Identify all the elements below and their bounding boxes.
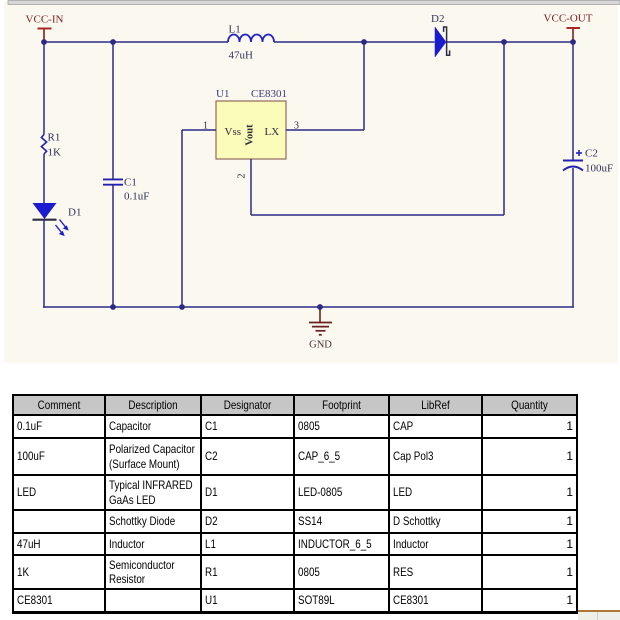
resistor R1 [41,132,61,159]
junction node GND tap [317,304,323,310]
junction node C1 top [110,39,116,45]
svg-text:D2: D2 [431,13,444,25]
svg-text:GND: GND [309,340,332,351]
wire riser to top rail [363,42,365,130]
wire R1 to D1 [43,154,45,203]
junction node LX riser top [361,39,367,45]
svg-text:100uF: 100uF [585,163,613,175]
op IC U1 body [216,88,287,159]
bottom right orange strip [578,610,620,612]
capacitor C2 polarized [563,148,613,175]
power symbol VCC-OUT [544,13,593,43]
wire top rail mid (L1 to D2) [274,41,435,43]
wire pin2 horizontal [251,214,504,216]
svg-text:Vout: Vout [245,124,256,146]
svg-text:L1: L1 [229,24,241,36]
wire LX to riser [286,129,364,131]
svg-text:CE8301: CE8301 [251,88,287,100]
junction node feedback top [501,39,507,45]
wire top rail right (D2 to VCC-OUT) [447,41,573,43]
svg-text:1K: 1K [48,147,62,159]
wire D1 to bottom rail [43,220,45,308]
BOM table [12,394,578,614]
svg-text:C1: C1 [124,177,137,189]
wire C2 to bottom rail [572,168,574,308]
svg-text:2: 2 [237,174,248,179]
wire feedback riser [503,42,505,215]
wire pin2 down [250,159,252,215]
capacitor C1 [103,177,149,203]
schematic cream background [4,1,618,363]
svg-text:C2: C2 [585,148,598,160]
svg-text:R1: R1 [48,132,61,144]
wire C1 branch top [112,42,114,179]
svg-text:0.1uF: 0.1uF [124,191,149,203]
svg-text:U1: U1 [216,88,229,100]
diode D2 (schottky) [431,13,450,57]
svg-text:LX: LX [265,126,280,138]
inductor L1 [228,24,274,62]
svg-text:VCC-OUT: VCC-OUT [544,13,593,25]
wire top rail left (VCC-IN to L1) [44,41,228,43]
svg-text:VCC-IN: VCC-IN [26,14,64,26]
top gray strip [8,1,620,5]
wire bottom rail [43,306,574,308]
LED D1 [33,203,82,236]
ground symbol GND [309,307,332,351]
wire pin1 vertical to bottom rail [181,130,183,307]
svg-text:Vss: Vss [225,126,242,138]
power symbol VCC-IN [26,14,64,43]
wire pin1 horizontal [182,129,216,131]
junction node at VCC-IN [41,39,47,45]
svg-text:47uH: 47uH [229,50,254,62]
svg-text:D1: D1 [68,207,81,219]
wire C1 to bottom rail [112,185,114,307]
junction node pin1 bottom [179,304,185,310]
junction node VCC-OUT [570,39,576,45]
junction node C1 bottom [110,304,116,310]
wire C2 branch top [572,42,574,160]
wire left branch vertical [43,42,45,135]
